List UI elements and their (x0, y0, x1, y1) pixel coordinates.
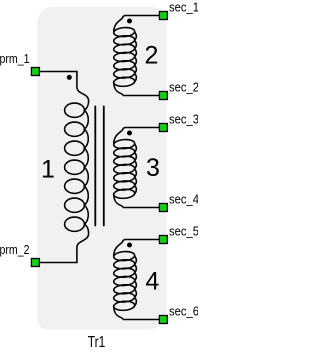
svg-text:sec_5: sec_5 (169, 225, 198, 239)
svg-text:3: 3 (146, 154, 160, 182)
svg-text:sec_1: sec_1 (169, 1, 198, 15)
svg-text:prm_2: prm_2 (0, 243, 30, 257)
svg-text:sec_6: sec_6 (169, 305, 198, 319)
svg-text:2: 2 (145, 42, 159, 70)
svg-text:sec_4: sec_4 (169, 193, 198, 207)
svg-text:4: 4 (145, 268, 159, 296)
svg-text:sec_2: sec_2 (169, 81, 198, 95)
svg-text:Tr1: Tr1 (88, 334, 106, 351)
svg-text:prm_1: prm_1 (0, 52, 30, 66)
svg-text:sec_3: sec_3 (169, 113, 198, 127)
svg-text:1: 1 (41, 156, 55, 184)
